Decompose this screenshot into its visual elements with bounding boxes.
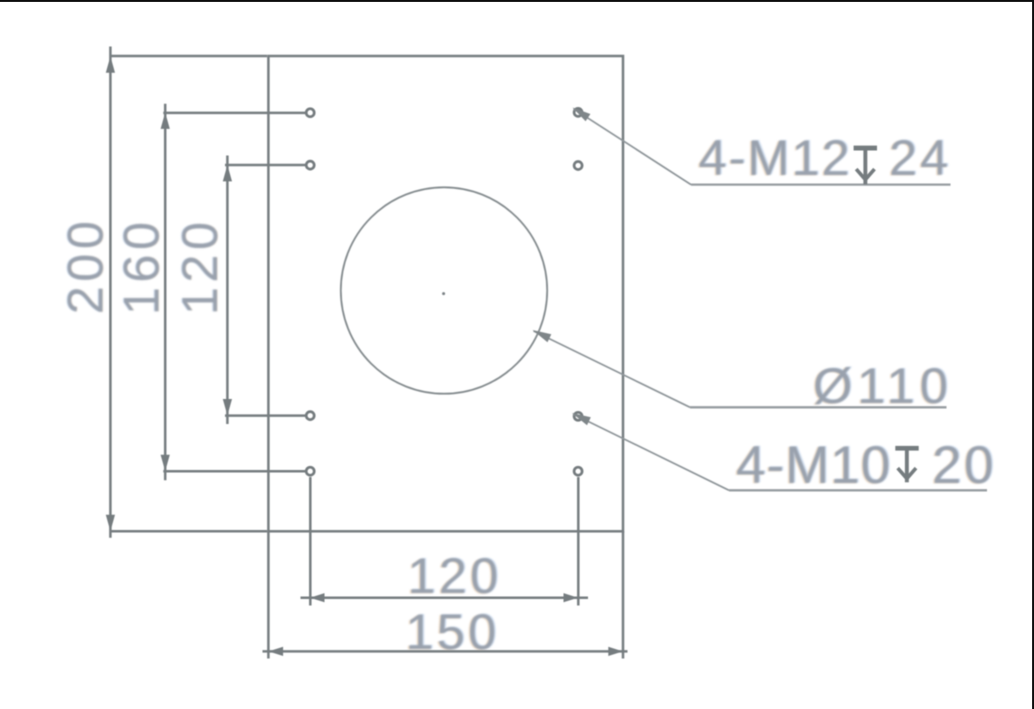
svg-text:120: 120 (408, 547, 502, 604)
center bore circle D110 (341, 187, 547, 393)
dim 150 left extension (267, 531, 270, 658)
dim 150 line (263, 650, 628, 653)
dim 120b right extension (577, 477, 580, 606)
label 160 text vertical (112, 217, 170, 315)
dim 160 top extension (163, 112, 306, 115)
dim 120v arrow up (223, 165, 232, 182)
svg-text:120: 120 (171, 217, 228, 315)
dim 120 bottom line (301, 596, 589, 599)
leader M10 underline (729, 489, 987, 491)
hole M12 top-left (306, 109, 314, 117)
dim 150 arrow right (608, 647, 623, 656)
frame right edge (1032, 0, 1034, 709)
hole M12 bottom-right (574, 467, 582, 475)
leader D110 diagonal (534, 331, 691, 407)
leader M12 diagonal (574, 109, 692, 185)
hole M12 bottom-left (306, 467, 314, 475)
dim 200 bottom extension (110, 530, 268, 533)
frame top edge (0, 0, 1034, 2)
dim 120b arrow right (564, 593, 579, 602)
label 120 text vertical (170, 217, 228, 315)
dim 120v bottom extension (225, 414, 306, 417)
label 200 text vertical (56, 217, 114, 315)
svg-text:160: 160 (113, 217, 170, 315)
dim 120 vertical line (226, 156, 229, 425)
dim 200 line (109, 47, 112, 538)
svg-text:20: 20 (932, 436, 996, 495)
leader D110 underline (690, 406, 947, 408)
dim 160 line (164, 104, 167, 480)
dim 160 bottom extension (163, 470, 306, 473)
hole M10 upper-right (574, 162, 582, 170)
dim 200 arrow down (106, 515, 115, 532)
dim 150 right extension (622, 531, 625, 658)
svg-text:4-M12: 4-M12 (699, 129, 852, 186)
label 4-M10 text (735, 436, 893, 496)
dim 120v top extension (225, 164, 306, 167)
dim 200 top extension (110, 55, 268, 58)
dim 160 arrow up (161, 112, 170, 128)
leader M12 underline (691, 183, 951, 185)
dim 160 arrow down (161, 455, 170, 472)
leader M12 arrowhead (573, 108, 591, 122)
svg-text:150: 150 (406, 603, 500, 660)
svg-text:24: 24 (889, 129, 951, 186)
label 120 bottom text (406, 547, 503, 605)
leader M10 diagonal (573, 414, 729, 490)
dim 120v arrow down (223, 399, 232, 416)
plate outline (268, 56, 623, 531)
svg-text:Ø110: Ø110 (813, 357, 953, 414)
hole M10 lower-right (574, 412, 582, 420)
hole M12 top-right (574, 108, 582, 116)
dim 200 arrow up (106, 56, 115, 72)
label 150 text (404, 603, 501, 661)
svg-text:200: 200 (57, 217, 114, 315)
label 4-M12 text (697, 129, 853, 187)
leader M10 arrowhead (572, 413, 591, 425)
leader D110 arrowhead (533, 330, 552, 342)
svg-text:4-M10: 4-M10 (736, 436, 891, 495)
label D110 text (812, 357, 955, 415)
dim 120b arrow left (310, 593, 325, 602)
hole M10 lower-left (306, 412, 314, 420)
circle center dot (442, 292, 445, 295)
label M12 depth symbol (854, 146, 877, 185)
dim 150 arrow left (269, 647, 284, 656)
dim 120b left extension (309, 477, 312, 606)
label 20 text (931, 436, 998, 496)
hole M10 upper-left (306, 161, 314, 169)
label M10 depth symbol (895, 446, 918, 482)
label 24 text (888, 129, 953, 187)
